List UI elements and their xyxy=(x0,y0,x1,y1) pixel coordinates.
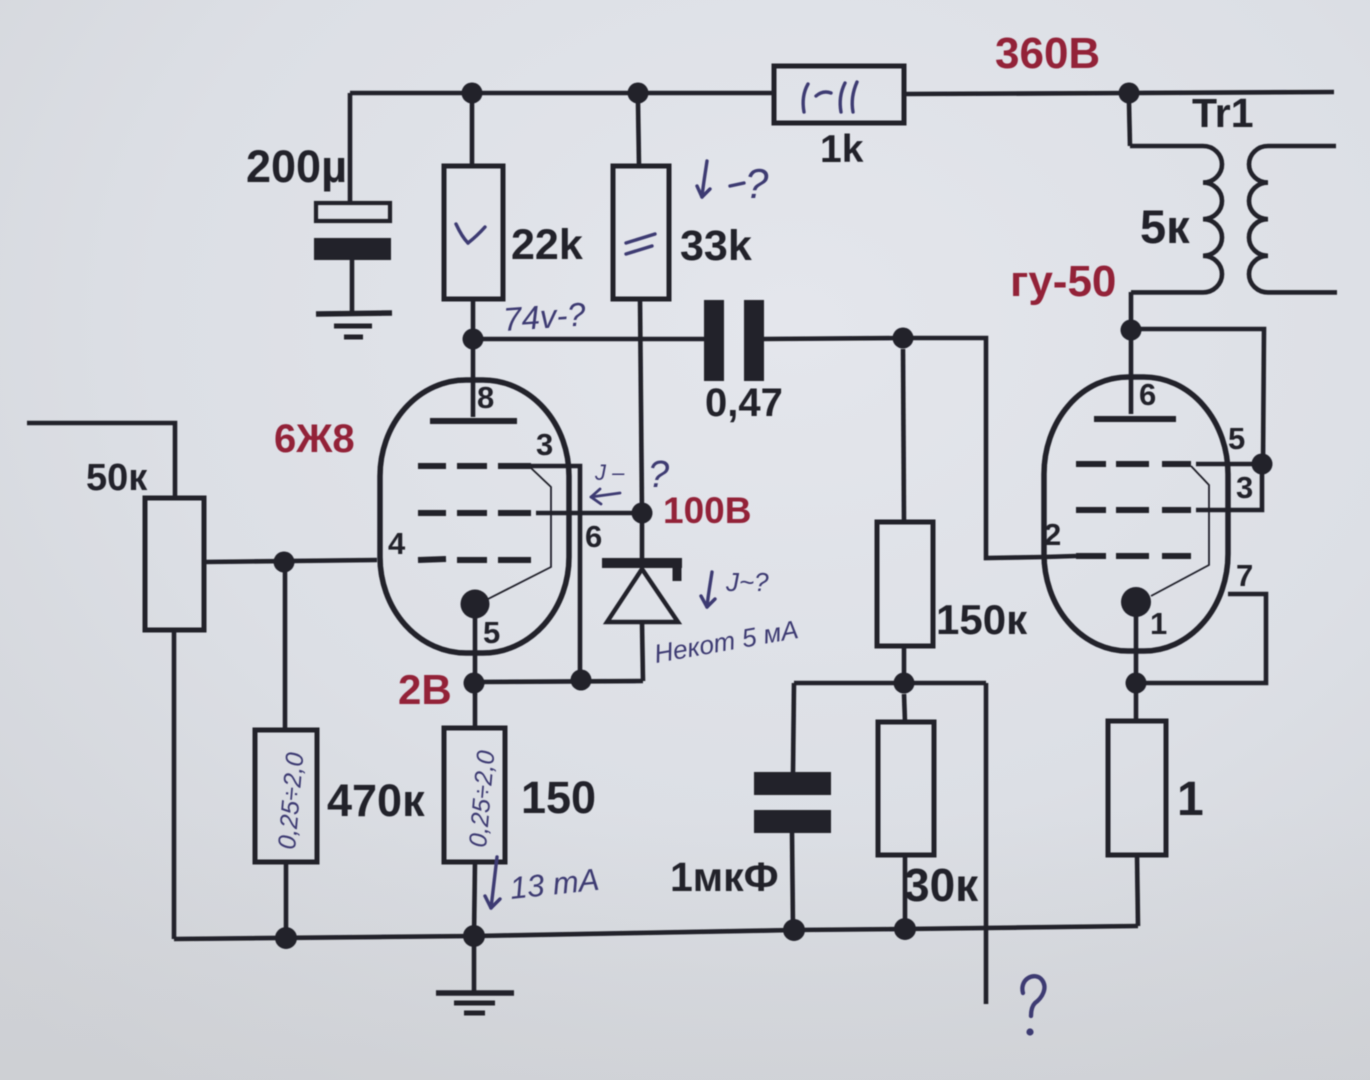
wire rail to main ground xyxy=(472,936,477,992)
svg-text:150к: 150к xyxy=(936,596,1028,643)
wire 30k to ground rail xyxy=(903,855,908,928)
svg-text:200µ: 200µ xyxy=(246,141,347,192)
ground rail bottom xyxy=(174,926,1138,939)
node rail at cathode ground xyxy=(463,925,485,947)
svg-text:7: 7 xyxy=(1236,558,1253,593)
wire rail to 33k xyxy=(638,103,639,166)
handwritten arrow down J~? near zener xyxy=(707,572,712,607)
node rail at 30k xyxy=(894,918,916,940)
wire down to 1uF cap xyxy=(793,683,794,772)
grid row g2 (pin 3) dashes xyxy=(1076,507,1106,513)
node on grid wire above 470k xyxy=(274,552,295,573)
node anode GU-50 xyxy=(1121,320,1142,341)
wire cathode pin 1 down xyxy=(1134,616,1139,721)
wire grid node to GU-50 grid (pin 2) xyxy=(903,338,1044,558)
wire pin 6 anode lead into tube xyxy=(1129,330,1134,414)
handwritten 1-11 inside 1k xyxy=(803,84,808,112)
svg-text:5: 5 xyxy=(483,615,500,650)
wire 50k wiper to grid of 6Zh8 (pin 4) xyxy=(204,560,377,562)
wire pin 6 screen exit to 100V node xyxy=(536,511,642,516)
node cathode 2V xyxy=(464,673,485,694)
anode plate bar 6Zh8 xyxy=(430,418,517,424)
wire cap to ground xyxy=(350,260,355,312)
svg-text:33k: 33k xyxy=(680,222,752,270)
wire 150 ohm to ground rail xyxy=(474,862,475,936)
node where pin3 line meets 2V wire xyxy=(571,670,592,691)
handwritten arrow down with -? near 33k top xyxy=(702,161,707,197)
wire 22k to anode node xyxy=(471,299,476,339)
wire zener anode down to 2V wire xyxy=(642,622,643,681)
handwritten check inside 22k xyxy=(456,224,468,243)
node 360V at transformer xyxy=(1119,83,1140,104)
wire 50k bottom to ground rail xyxy=(172,630,177,939)
wire pin 5 exit to tie node xyxy=(1196,462,1262,467)
handwritten arrow down 13 mA xyxy=(491,857,497,908)
node rail at 470k xyxy=(275,927,297,949)
svg-text:8: 8 xyxy=(477,380,494,415)
wire 150k bottom to bias node xyxy=(902,646,907,683)
svg-text:1мкФ: 1мкФ xyxy=(670,854,779,900)
node 100V screen node xyxy=(632,503,653,524)
svg-text:Tr1: Tr1 xyxy=(1192,90,1254,136)
node on rail above 33k xyxy=(628,83,649,104)
wire 360V node down to primary xyxy=(1129,103,1130,146)
svg-text:4: 4 xyxy=(388,526,406,561)
resistor R 470k xyxy=(255,730,317,862)
wire B+ rail middle segment xyxy=(904,93,1130,94)
internal suppressor-to-cathode thin link xyxy=(488,468,551,599)
wire grid node down to 470k xyxy=(283,562,288,730)
internal suppressor-to-cathode thin link GU-50 xyxy=(1151,466,1209,596)
wire R1 bottom to ground rail xyxy=(1137,855,1138,926)
svg-text:470к: 470к xyxy=(327,775,425,826)
tube GU-50 envelope xyxy=(1044,377,1228,651)
wire B+ rail left segment xyxy=(350,91,772,96)
anode plate bar GU-50 xyxy=(1094,416,1176,422)
svg-text:22k: 22k xyxy=(511,221,583,269)
wire 1uF to ground rail xyxy=(792,833,793,929)
wire pin 8 anode lead into tube xyxy=(471,339,476,417)
node cathode GU-50 xyxy=(1126,673,1147,694)
wire anode node to coupling cap xyxy=(473,337,705,342)
node pins 5/3 tie xyxy=(1252,454,1273,475)
handwritten equals inside 33k xyxy=(626,234,655,243)
svg-text:30к: 30к xyxy=(904,859,979,911)
resistor R 33k xyxy=(613,166,669,299)
wire 100V node to zener cathode xyxy=(640,513,645,559)
wire 33k down to 100V node (crosses anode wire) xyxy=(640,299,642,513)
svg-text:100В: 100В xyxy=(663,490,751,531)
wire primary bottom to anode node xyxy=(1129,292,1134,332)
wire cathode pin 5 down xyxy=(473,617,478,695)
svg-text:?: ? xyxy=(745,160,769,207)
ground symbol under 200u xyxy=(316,313,392,314)
node on rail above 22k xyxy=(462,83,483,104)
wire pin 3 exit up to tie node xyxy=(1196,464,1262,510)
zener cathode bar right bent tip xyxy=(673,568,682,581)
wire rail to 22k xyxy=(470,103,475,166)
svg-text:5: 5 xyxy=(1228,421,1245,456)
svg-text:2: 2 xyxy=(1044,517,1061,552)
wire cathode node to 150 ohm xyxy=(473,694,478,728)
resistor R 1k xyxy=(774,66,904,123)
resistor R 50k xyxy=(145,498,204,630)
svg-text:1: 1 xyxy=(1150,606,1167,641)
transformer Tr1 secondary winding xyxy=(1249,146,1337,292)
wire input stub top-left xyxy=(27,423,175,498)
handwritten ? at dangling wire xyxy=(1022,976,1044,1016)
node at anode of 6Zh8 xyxy=(463,329,484,350)
cathode dot 6Zh8 xyxy=(461,590,490,619)
wire B+ rail right segment xyxy=(1130,92,1334,93)
grid row g1 (pin 2) dashes with entry xyxy=(1044,556,1076,557)
grid row g3 (pin 3) dashes xyxy=(418,463,446,469)
node after coupling cap (top of 150k) xyxy=(893,328,914,349)
svg-text:360В: 360В xyxy=(995,29,1100,78)
transformer Tr1 primary winding 5k xyxy=(1130,146,1222,292)
svg-text:1: 1 xyxy=(1177,773,1204,826)
wire 470k to ground rail xyxy=(284,862,289,938)
capacitor C 200u top plate xyxy=(316,203,390,221)
zener diode VD triangle xyxy=(607,569,678,622)
resistor R 30k xyxy=(878,722,934,855)
wire coupling cap to grid node xyxy=(764,338,903,339)
ground symbol main xyxy=(436,990,514,996)
wire dangling probe line with question mark xyxy=(984,683,989,1004)
tube 6Zh8 envelope xyxy=(380,380,569,653)
svg-text:J –: J – xyxy=(594,460,625,485)
svg-text:150: 150 xyxy=(521,772,596,823)
capacitor C 0,47 right plate xyxy=(744,300,764,381)
svg-text:0,47: 0,47 xyxy=(705,381,783,425)
svg-text:50к: 50к xyxy=(86,457,148,499)
resistor R 22k xyxy=(444,166,503,299)
grid row g3 (pins 5) dashes xyxy=(1076,461,1106,467)
svg-text:3: 3 xyxy=(536,427,553,462)
svg-text:J~?: J~? xyxy=(725,567,769,597)
wire 2V node to diode bottom xyxy=(475,681,643,682)
wire pin 3 exit to outer right line xyxy=(531,466,580,677)
resistor R 150k xyxy=(877,522,933,646)
grid row g1 (pin 4) dashes xyxy=(418,559,446,560)
capacitor C 200u bottom plate (polarized solid) xyxy=(314,238,391,260)
capacitor C 0,47 left plate xyxy=(704,300,724,381)
wire 150k from grid node down xyxy=(903,349,904,522)
svg-text:гу-50: гу-50 xyxy=(1010,257,1116,306)
zener diode VD cathode bar xyxy=(602,558,682,568)
svg-text:?: ? xyxy=(648,454,670,496)
svg-text:5к: 5к xyxy=(1140,200,1190,253)
svg-text:74v-?: 74v-? xyxy=(502,295,588,338)
svg-text:2В: 2В xyxy=(398,666,452,713)
svg-text:3: 3 xyxy=(1236,470,1253,505)
cathode dot GU-50 xyxy=(1121,587,1151,617)
wire pin 7 to cathode node xyxy=(1146,594,1266,683)
wire anode node right and down to g3 node xyxy=(1131,329,1264,464)
wire from rail down to capacitor 200u xyxy=(348,93,353,203)
svg-text:6: 6 xyxy=(1139,377,1156,412)
svg-text:6Ж8: 6Ж8 xyxy=(274,417,355,461)
node bias divider xyxy=(894,673,915,694)
wire bias node down to 30k xyxy=(904,694,905,722)
resistor R 1 (cathode) xyxy=(1108,721,1166,855)
capacitor C 1uF top plate xyxy=(754,772,831,795)
node rail at 1uF xyxy=(783,919,805,941)
capacitor C 1uF bottom plate xyxy=(754,810,831,833)
svg-text:1k: 1k xyxy=(820,128,864,171)
resistor R 150 xyxy=(444,728,505,862)
svg-text:6: 6 xyxy=(585,519,602,554)
grid row g2 (pin 6) dashes xyxy=(418,510,446,516)
wire bias node left to 1uF and right to dangling probe xyxy=(794,681,986,686)
